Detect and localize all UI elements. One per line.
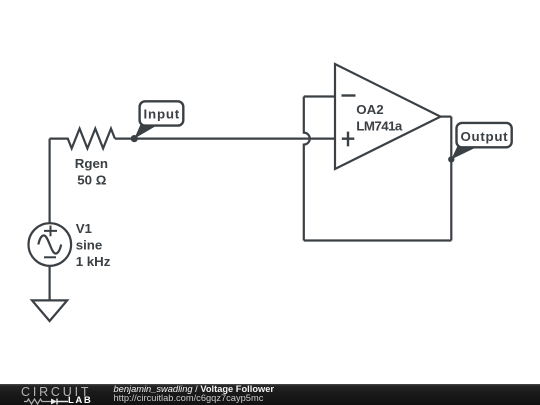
Input flag box (140, 101, 184, 125)
footer bar (0, 384, 540, 405)
svg-text:50 Ω: 50 Ω (77, 172, 106, 187)
voltage source V1 minus sign (44, 256, 56, 258)
op-amp plus input symbol (342, 132, 355, 147)
Output flag box (457, 123, 512, 147)
wire: feedback vertical with hop over main wire (304, 97, 310, 241)
svg-text:1 kHz: 1 kHz (76, 254, 111, 269)
wire: feedback bottom horizontal (304, 239, 452, 241)
wire: output stub from op-amp apex (441, 115, 452, 117)
voltage source V1 circle (29, 223, 72, 266)
wire: main horizontal wire to op-amp + input (115, 138, 335, 140)
Input flag pointer (134, 125, 158, 139)
footer line 1: author / title (114, 384, 275, 394)
CircuitLab logo wordmark CIRCUIT (21, 385, 91, 399)
svg-text:V1: V1 (76, 221, 93, 236)
svg-text:Output: Output (461, 129, 509, 144)
Output flag pointer (451, 146, 479, 159)
wire: V1 bottom to ground (48, 266, 50, 301)
node dot at Input flag (131, 135, 138, 142)
svg-text:OA2: OA2 (356, 102, 383, 117)
svg-text:Rgen: Rgen (75, 156, 108, 171)
CircuitLab logo schematic squiggle (resistor + diode) (24, 398, 70, 405)
CircuitLab logo wordmark LAB (68, 395, 92, 405)
op-amp U1 OA2 triangle body (335, 64, 441, 169)
node dot at Output flag (448, 156, 454, 162)
ground symbol (32, 300, 67, 321)
wire: output vertical (450, 117, 452, 241)
footer line 2: url (114, 393, 264, 403)
voltage source V1 plus sign (44, 226, 57, 237)
svg-text:Input: Input (144, 107, 181, 122)
wire: left rail from resistor to V1 top (48, 139, 50, 224)
svg-text:sine: sine (76, 237, 103, 252)
voltage source V1 sine wave glyph (38, 235, 61, 253)
op-amp minus input symbol (342, 94, 356, 96)
resistor Rgen (50, 129, 115, 149)
wire: op-amp inverting input stub (304, 95, 335, 97)
svg-text:LM741a: LM741a (356, 119, 403, 134)
